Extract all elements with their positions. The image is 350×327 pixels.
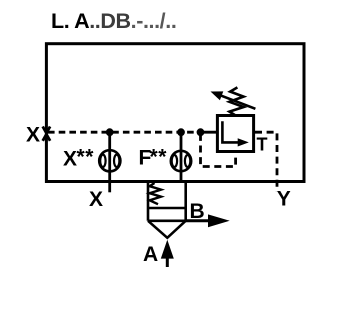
wire: dashed drain from node 3 to relief valve bottom port <box>201 134 236 167</box>
svg-text:A: A <box>143 243 158 266</box>
wire/arrow: port A flow arrow (upward) <box>166 256 169 267</box>
wire/arrow: port B flow arrow <box>186 219 211 222</box>
cartridge valve insert body <box>148 182 186 221</box>
housing outline (cover block) <box>46 44 304 182</box>
wire: vertical line through orifice F** to cartridge spring chamber <box>180 132 183 182</box>
svg-text:**: ** <box>77 146 95 169</box>
svg-text:L. A..DB.-.../..: L. A..DB.-.../.. <box>51 9 176 33</box>
orifice insert X** (circle with venturi) <box>99 150 120 171</box>
svg-text:X: X <box>63 148 77 171</box>
svg-text:**: ** <box>150 146 168 169</box>
port X plug symbol (crossed chevrons on border) <box>43 127 50 141</box>
relief valve spring <box>229 87 243 115</box>
relief valve internal flow arrow <box>222 121 239 142</box>
svg-text:X: X <box>26 124 40 147</box>
wire: vertical line through orifice X** to port X <box>108 132 111 192</box>
svg-text:B: B <box>190 200 205 223</box>
node: junction dot 2 <box>177 128 185 136</box>
adjustability arrow across spring <box>219 95 255 109</box>
cartridge spring <box>150 183 161 204</box>
svg-text:Y: Y <box>277 188 291 211</box>
wire: solid segment to relief valve P port <box>201 131 218 134</box>
svg-text:T: T <box>257 135 268 155</box>
wire: pilot line X (dashed) <box>48 131 201 134</box>
pilot relief valve V1 (square body) <box>217 116 253 152</box>
wire: dashed line T port to Y port <box>255 132 277 191</box>
cartridge poppet cone <box>148 221 186 238</box>
node: junction dot 3 <box>197 128 205 136</box>
node: junction dot 1 <box>106 128 114 136</box>
orifice insert F** (circle with venturi) <box>171 151 191 171</box>
svg-text:X: X <box>89 188 103 211</box>
